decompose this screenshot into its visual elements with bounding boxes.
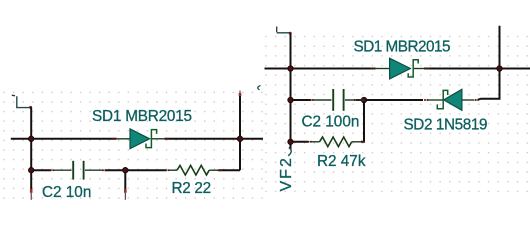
resistor R2 22: [165, 165, 221, 175]
diode SD1 (left circuit, Schottky MBR2015): [112, 129, 169, 149]
wire R2 row: [291, 141, 309, 143]
junction at hook/main bus: [29, 136, 34, 141]
junction at left/lower row: [29, 168, 34, 173]
wire bottom-middle drop with red end: [124, 170, 127, 200]
svg-text:R2 47k: R2 47k: [317, 153, 366, 170]
junction top bus right: [497, 66, 502, 71]
wire main horizontal bus segment 2: [165, 138, 264, 140]
capacitor C2 10n: [50, 161, 107, 180]
wire stub / hook at top-left of left circuit: [12, 95, 32, 109]
resistor R2 47k: [308, 137, 365, 147]
wire top horizontal bus segment 2: [424, 68, 530, 70]
junction C2 right / SD2: [361, 97, 366, 102]
junction R2 row left: [288, 139, 293, 144]
svg-text:SD2 1N5819: SD2 1N5819: [404, 116, 488, 133]
wire right vertical with top stub: [239, 91, 242, 171]
wire C2/SD2 row segment 1: [291, 99, 312, 101]
wire lower horizontal segment 3: [219, 169, 241, 171]
wire from C2 junction down to R2: [361, 100, 364, 142]
wire left vertical (VF2 net): [290, 34, 292, 150]
wire lower horizontal (C2/R2 row) segment 1: [31, 169, 51, 171]
wire top horizontal bus segment 1: [265, 68, 376, 70]
junction at C2 right / drop: [123, 168, 128, 173]
svg-text:C2 100n: C2 100n: [302, 114, 360, 131]
svg-text:SD1 MBR2015: SD1 MBR2015: [92, 108, 192, 125]
svg-text:SD1 MBR2015: SD1 MBR2015: [354, 39, 451, 56]
junction C2 row left: [288, 97, 293, 102]
svg-text:R2 22: R2 22: [172, 180, 211, 197]
wire stub / hook at top-left of right circuit: [277, 27, 292, 35]
wire right vertical: [478, 26, 500, 100]
wire bottom-left drop with red end: [30, 170, 33, 200]
junction top bus left: [288, 66, 293, 71]
curl at VF2 wire end: [288, 148, 291, 156]
diode SD1 (right circuit, Schottky MBR2015): [370, 58, 429, 79]
wire main horizontal bus segment 1: [11, 138, 117, 140]
junction at right vertical/main bus: [237, 136, 242, 141]
wire C2/SD2 row segment 2: [356, 99, 423, 101]
svg-text:C2 10n: C2 10n: [42, 184, 91, 201]
svg-text:VF2: VF2: [278, 156, 295, 191]
capacitor C2 100n: [309, 89, 364, 111]
wire lower horizontal segment 2: [105, 169, 167, 171]
wire vertical from hook to main bus (node A): [30, 108, 32, 171]
diode SD2 1N5819 (pointing left): [424, 89, 479, 110]
small teal curl (clipped wire) right of left circuit: [258, 86, 261, 90]
